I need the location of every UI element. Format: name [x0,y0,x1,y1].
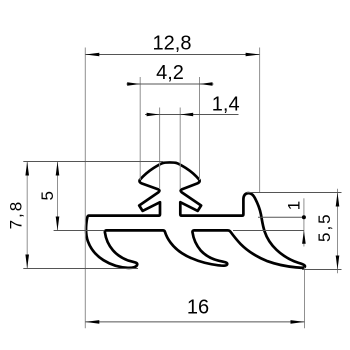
arrow 16 left [85,320,99,324]
arrow 1.4 right (outside) [180,113,193,117]
seal profile cross-section outline [86,162,305,267]
svg-text:16: 16 [187,297,209,319]
svg-text:5: 5 [38,191,57,200]
arrow 12.8 left [85,53,99,57]
arrow 1 bottom (outside, pointing up) [302,231,306,244]
dimension texts [153,33,240,319]
ext line y230.5 right (1 bottom) [233,230,304,232]
arrow 7.8 top [25,162,29,176]
arrow 5.5 bottom [336,256,340,270]
ext line 16 right [304,268,306,329]
svg-text:1,4: 1,4 [212,94,240,116]
svg-text:4,2: 4,2 [156,62,184,84]
ext line left shared by 12.8 and 16 [84,48,86,329]
top ext line for 7.8 and 5 [23,161,163,163]
dim line 12.8 [85,54,259,56]
ext line 4.2 left [139,77,141,180]
dim line 4.2 [127,83,214,85]
dim line 16 [85,321,304,323]
ext line y217 to dot (1 top) [258,216,304,218]
ext line 1.4 right [179,108,181,190]
arrowheads [25,53,339,324]
arrow 5 top [56,162,60,176]
arrow 12.8 right [246,53,260,57]
thin horizontal extension / dimension lines [23,55,341,322]
svg-text:1: 1 [285,201,304,210]
arrow 5 bottom [56,217,60,231]
dim line 1.4 [145,114,239,116]
thin vertical extension lines [27,48,337,329]
arrow 1.4 left (outside) [147,113,160,117]
ext line bottom left (7.8 bottom) [23,268,138,270]
arrow 5.5 top [336,193,340,207]
ext line hook top / 5.5 top [247,192,342,194]
arrow 4.2 right (outside) [200,82,213,86]
arrow 4.2 left (outside) [127,82,140,86]
arrow 16 right [291,320,305,324]
svg-text:5,5: 5,5 [315,212,334,242]
dim line 5 [57,162,59,231]
arrow 7.8 bottom [25,255,29,269]
ext line underside left (5 bottom) [54,230,105,232]
ext line 1.4 left [159,108,161,190]
dim line 5.5 [337,189,339,274]
dim line 1 [303,198,305,246]
ext line 4.2 right [199,77,201,180]
dim line 7.8 [26,162,28,269]
ext line right of 12.8 [259,48,261,193]
ext line 5.5 bottom [302,269,342,271]
svg-text:7,8: 7,8 [6,200,25,230]
dot terminator of dim 1 [302,215,306,219]
svg-text:12,8: 12,8 [153,33,192,55]
